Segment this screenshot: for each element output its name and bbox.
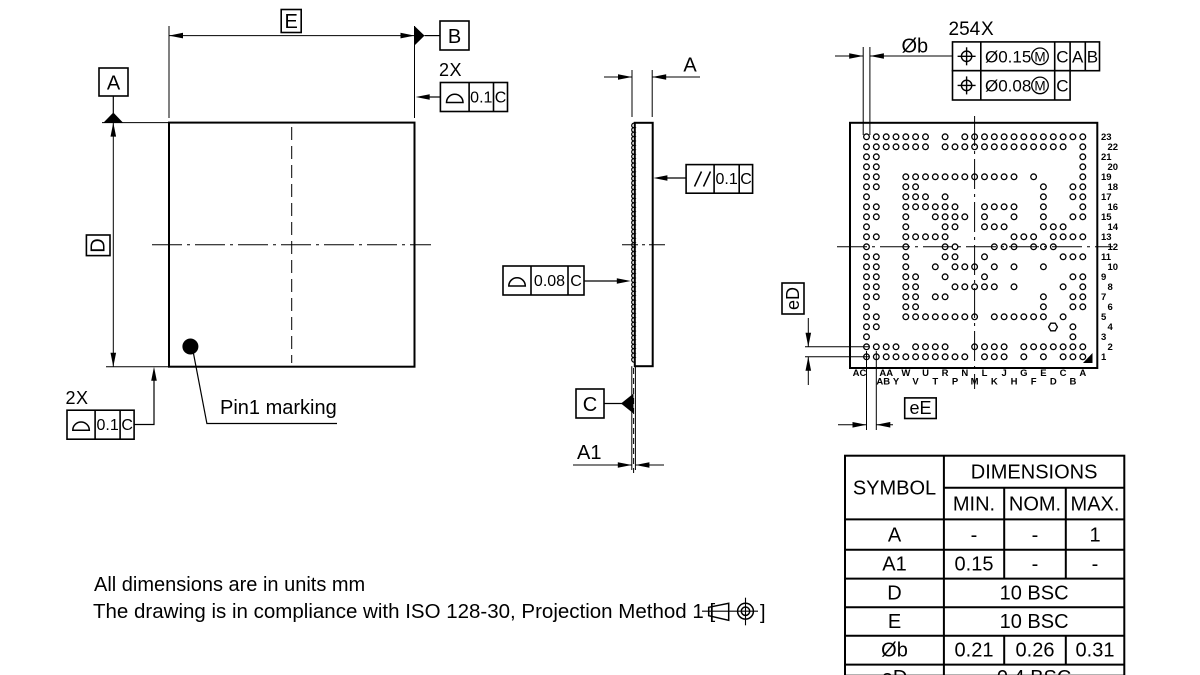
svg-text:MIN.: MIN. [953, 494, 995, 516]
top view vertical centerline [291, 127, 293, 363]
svg-text:X: X [450, 60, 462, 80]
svg-text:-: - [1032, 554, 1039, 576]
svg-text:Y: Y [893, 377, 900, 388]
datum C leader [604, 403, 622, 405]
svg-text:E: E [1040, 368, 1046, 379]
leader arrow from // frame to side view [666, 177, 686, 179]
svg-text:11: 11 [1101, 252, 1112, 263]
svg-text:MAX.: MAX. [1071, 494, 1120, 516]
profile of surface symbol (top right frame) [447, 94, 464, 102]
svg-text:0.1: 0.1 [470, 90, 492, 107]
svg-text:C: C [1056, 77, 1068, 96]
svg-text:M: M [1034, 79, 1045, 94]
dimension Ob line and arrows [835, 55, 953, 57]
svg-text:10: 10 [1108, 262, 1119, 273]
position symbol (row 2) [958, 76, 976, 94]
alignment hexagon [1049, 323, 1058, 331]
profile of surface symbol (side frame) [509, 278, 526, 286]
svg-text:C: C [740, 171, 752, 188]
svg-text:254: 254 [949, 19, 981, 40]
svg-text:0.1: 0.1 [96, 417, 118, 434]
svg-text:A: A [888, 525, 902, 547]
svg-text:-: - [971, 525, 978, 547]
svg-text:A1: A1 [882, 554, 906, 576]
svg-text:C: C [121, 417, 133, 434]
position tolerance frame O0.15 M C A B [953, 42, 1100, 71]
svg-text:A: A [107, 72, 121, 94]
svg-text:V: V [912, 377, 919, 388]
side view horizontal centerline [622, 244, 665, 246]
svg-text:0.26: 0.26 [1016, 640, 1055, 662]
svg-text:0.1: 0.1 [715, 171, 737, 188]
ball row numbers 1-23 [1101, 132, 1119, 363]
svg-text:F: F [1031, 377, 1037, 388]
svg-text:C: C [570, 273, 582, 290]
svg-text:eD: eD [882, 667, 908, 675]
svg-text:A1: A1 [577, 442, 601, 464]
svg-text:L: L [982, 368, 988, 379]
dimension A extension lines [632, 70, 652, 117]
top-left extension line [102, 122, 169, 124]
Pin1 marking dot [182, 339, 198, 355]
bottom-left extension line [106, 366, 169, 368]
datum A box [99, 68, 128, 96]
profile of surface symbol (bottom left frame) [73, 422, 90, 430]
svg-text:C: C [495, 90, 507, 107]
leader arrow from 0.1 C frame to E extension line [428, 96, 440, 98]
parallelism symbol [695, 172, 711, 187]
svg-text:7: 7 [1101, 292, 1106, 303]
dimension eD extension lines [805, 347, 869, 357]
svg-text:9: 9 [1101, 272, 1106, 283]
svg-text:Øb: Øb [881, 640, 908, 662]
svg-text:R: R [942, 368, 949, 379]
dimension A line and arrows [604, 76, 700, 78]
M circle (row 1) [1032, 48, 1049, 65]
svg-text:M: M [1034, 50, 1045, 65]
svg-text:17: 17 [1101, 192, 1112, 203]
svg-text:8: 8 [1108, 282, 1113, 293]
svg-text:A: A [1079, 368, 1086, 379]
svg-text:23: 23 [1101, 132, 1112, 143]
svg-text:Øb: Øb [902, 36, 929, 58]
svg-text:2: 2 [439, 60, 449, 80]
dimension label D box (rotated) [86, 235, 110, 256]
dimension E arrowheads [169, 33, 415, 39]
dimension A1 line and arrows [573, 464, 664, 466]
svg-text:0.08: 0.08 [534, 273, 565, 290]
svg-text:C: C [1056, 48, 1068, 67]
table data rows [881, 525, 1114, 675]
svg-text:6: 6 [1108, 302, 1113, 313]
svg-text:AA: AA [879, 368, 893, 379]
profile frame 0.08 C (side view) [503, 266, 584, 295]
dimension eE line and arrows [838, 424, 893, 426]
svg-text:X: X [76, 388, 88, 408]
svg-text:B: B [1069, 377, 1076, 388]
svg-text:N: N [961, 368, 968, 379]
svg-text:Ø0.08: Ø0.08 [985, 77, 1031, 96]
svg-text:X: X [981, 19, 994, 40]
position symbol (row 1) [958, 47, 976, 65]
svg-text:15: 15 [1101, 212, 1112, 223]
svg-text:-: - [1092, 554, 1099, 576]
dimension E extension lines [169, 26, 415, 118]
svg-text:All dimensions are in units mm: All dimensions are in units mm [94, 574, 365, 596]
svg-text:NOM.: NOM. [1009, 494, 1061, 516]
seating plane lines below side view [632, 366, 636, 473]
dimension E line [169, 35, 415, 37]
dimension D arrowheads [111, 123, 117, 367]
svg-text:DIMENSIONS: DIMENSIONS [971, 462, 1098, 484]
dimension label E box [281, 10, 301, 33]
svg-text:14: 14 [1108, 222, 1119, 233]
bottom view package outline [850, 123, 1097, 368]
svg-text:E: E [888, 611, 901, 633]
position tolerance frame O0.08 M C [953, 71, 1071, 100]
profile tolerance frame 0.1 C (bottom left) [67, 410, 134, 439]
parallelism frame // 0.1 C [686, 165, 753, 194]
svg-text:10 BSC: 10 BSC [1000, 611, 1069, 633]
M circle (row 2) [1032, 77, 1049, 94]
svg-text:D: D [1050, 377, 1057, 388]
svg-text:C: C [1060, 368, 1067, 379]
bottom view vertical centerline [974, 116, 976, 389]
BGA solder balls (254x) [864, 134, 1086, 360]
svg-text:0.4 BSC: 0.4 BSC [997, 667, 1071, 675]
datum B box [440, 21, 469, 50]
svg-text:21: 21 [1101, 152, 1112, 163]
svg-text:-: - [1032, 525, 1039, 547]
svg-text:]: ] [760, 602, 766, 624]
svg-text:Pin1 marking: Pin1 marking [220, 397, 337, 419]
leader arrow from 0.08 frame to balls [584, 280, 618, 282]
svg-text:4: 4 [1108, 322, 1114, 333]
svg-text:G: G [1020, 368, 1027, 379]
svg-text:J: J [1001, 368, 1006, 379]
svg-text:W: W [901, 368, 910, 379]
svg-text:2: 2 [66, 388, 76, 408]
svg-text:A: A [683, 54, 697, 76]
svg-text:0.21: 0.21 [955, 640, 994, 662]
Pin1 leader line [194, 354, 338, 424]
svg-text:U: U [922, 368, 929, 379]
svg-text:Ø0.15: Ø0.15 [985, 48, 1031, 67]
datum A leader [112, 96, 114, 113]
svg-text:19: 19 [1101, 172, 1112, 183]
top view package outline [169, 123, 415, 367]
svg-text:13: 13 [1101, 232, 1112, 243]
svg-text:E: E [285, 11, 298, 33]
svg-text:18: 18 [1108, 182, 1119, 193]
A1 corner index triangle [1083, 353, 1093, 363]
profile tolerance frame 0.1 C (top right) [440, 83, 507, 112]
leader from bottom left frame up to bottom edge [134, 378, 154, 425]
svg-text:D: D [88, 238, 110, 252]
ball column letters A..AC [853, 368, 1087, 388]
svg-text:The drawing is in compliance w: The drawing is in compliance with ISO 12… [93, 600, 715, 623]
svg-text:T: T [932, 377, 938, 388]
projection method symbol cone [709, 603, 729, 620]
dimensions table grid [845, 456, 1124, 675]
dimension label eE box [905, 398, 937, 419]
svg-text:1: 1 [1089, 525, 1100, 547]
side view package body [635, 123, 653, 366]
svg-text:D: D [887, 583, 901, 605]
svg-text:P: P [952, 377, 959, 388]
dimension D line [112, 123, 114, 367]
svg-text:SYMBOL: SYMBOL [853, 478, 936, 500]
svg-text:2: 2 [1108, 342, 1113, 353]
svg-text:1: 1 [1101, 352, 1107, 363]
svg-text:B: B [1087, 48, 1098, 67]
svg-text:22: 22 [1108, 142, 1119, 153]
svg-text:12: 12 [1108, 242, 1119, 253]
projection symbol circles [738, 603, 754, 619]
svg-text:K: K [991, 377, 998, 388]
datum B leader [425, 35, 441, 37]
svg-text:H: H [1011, 377, 1018, 388]
bottom view horizontal centerline [837, 246, 1113, 248]
svg-text:10 BSC: 10 BSC [1000, 583, 1069, 605]
svg-text:AC: AC [853, 368, 867, 379]
top view horizontal centerline [152, 244, 431, 246]
dimension Ob extension lines [863, 47, 870, 135]
svg-text:16: 16 [1108, 202, 1119, 213]
projection symbol centerlines [702, 598, 758, 626]
dimension label eD box (rotated) [782, 283, 804, 314]
svg-text:B: B [448, 26, 461, 48]
svg-text:3: 3 [1101, 332, 1106, 343]
svg-text:C: C [583, 394, 597, 416]
svg-text:eE: eE [909, 398, 931, 418]
svg-text:5: 5 [1101, 312, 1107, 323]
svg-text:M: M [971, 377, 979, 388]
side view ball bumps (serration) [632, 123, 635, 362]
datum C box [576, 389, 604, 418]
svg-text:A: A [1072, 48, 1084, 67]
svg-text:0.31: 0.31 [1076, 640, 1115, 662]
svg-text:0.15: 0.15 [955, 554, 994, 576]
svg-text:20: 20 [1108, 162, 1119, 173]
datum C triangle [621, 394, 634, 414]
svg-text:eD: eD [783, 287, 803, 310]
table header text [853, 462, 1120, 516]
dimension eD line and arrows [807, 318, 809, 385]
dimension eE extension lines [867, 351, 877, 430]
datum B triangle [415, 26, 425, 46]
datum A triangle [104, 113, 124, 123]
